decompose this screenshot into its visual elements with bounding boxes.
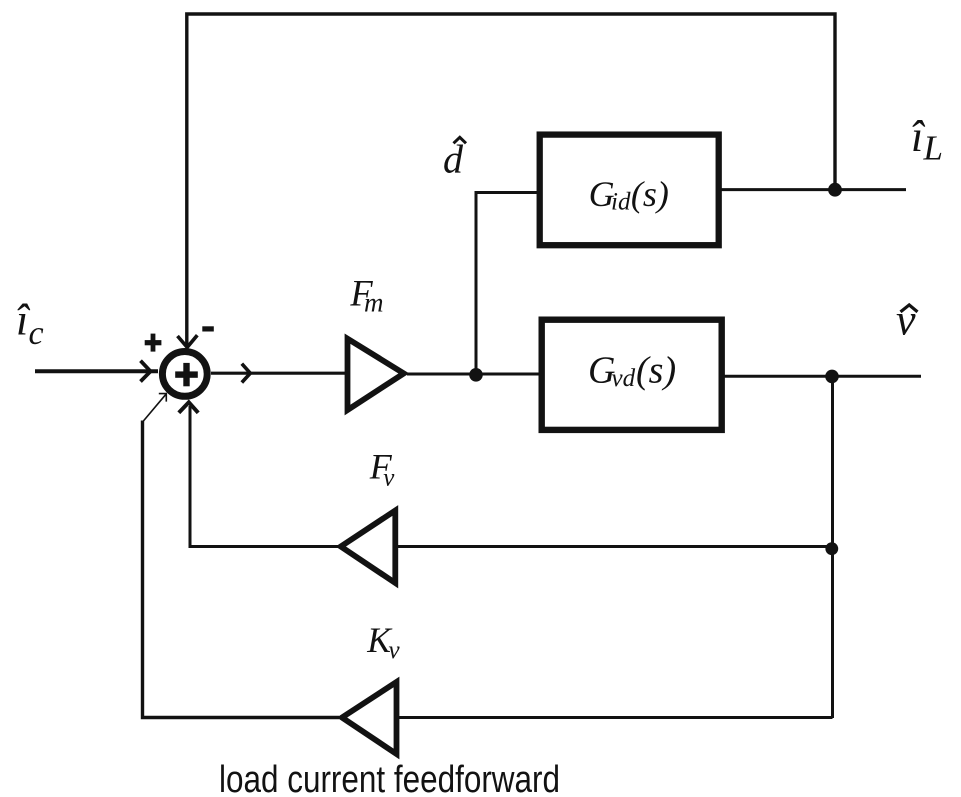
block Gvd xyxy=(542,320,722,430)
amplifier Fv xyxy=(341,511,396,584)
svg-text:vd: vd xyxy=(612,365,636,392)
svg-text:v: v xyxy=(896,296,916,345)
svg-text:c: c xyxy=(29,315,44,352)
wire Fv feedback right segment xyxy=(396,545,832,548)
arrowhead ic into summing junction xyxy=(141,361,151,382)
label plus sign xyxy=(145,340,162,345)
leader arrow feedforward into summing junction xyxy=(144,394,167,421)
summing junction xyxy=(162,352,207,397)
svg-text:id: id xyxy=(611,188,631,215)
node d junction xyxy=(469,368,483,382)
arrowhead minus input into summing junction top xyxy=(178,335,198,347)
svg-text:L: L xyxy=(923,129,943,168)
wire Fm to Gvd xyxy=(407,373,543,376)
amplifier Kv xyxy=(342,682,397,754)
svg-text:(s): (s) xyxy=(631,174,669,214)
svg-text:m: m xyxy=(364,288,384,318)
summing junction plus xyxy=(175,371,198,377)
wire iL output xyxy=(718,188,906,191)
wire summing junction to Fm xyxy=(211,372,346,375)
wire right vertical down from v node xyxy=(831,376,834,718)
node v junction xyxy=(825,370,839,384)
arrowhead Fv feedback into summing junction bottom xyxy=(179,402,198,413)
wire d branch xyxy=(476,193,537,375)
node iL junction xyxy=(828,183,842,197)
arrowhead after summing junction xyxy=(242,364,251,383)
block Gid xyxy=(540,135,719,246)
wire Kv feedback right segment xyxy=(398,716,833,719)
wire v output xyxy=(720,375,921,378)
label minus sign xyxy=(202,326,214,331)
wire Fv feedback left segment xyxy=(190,406,338,547)
svg-text:load current feedforward: load current feedforward xyxy=(219,759,560,797)
node Fv tap junction xyxy=(825,542,838,555)
svg-text:v: v xyxy=(389,637,401,664)
svg-text:(s): (s) xyxy=(636,350,676,392)
wire top feedback loop xyxy=(187,14,835,346)
amplifier Fm xyxy=(348,339,404,410)
wire Kv feedback left segment xyxy=(143,421,340,718)
wire ic input xyxy=(35,369,158,373)
svg-text:v: v xyxy=(383,465,395,492)
